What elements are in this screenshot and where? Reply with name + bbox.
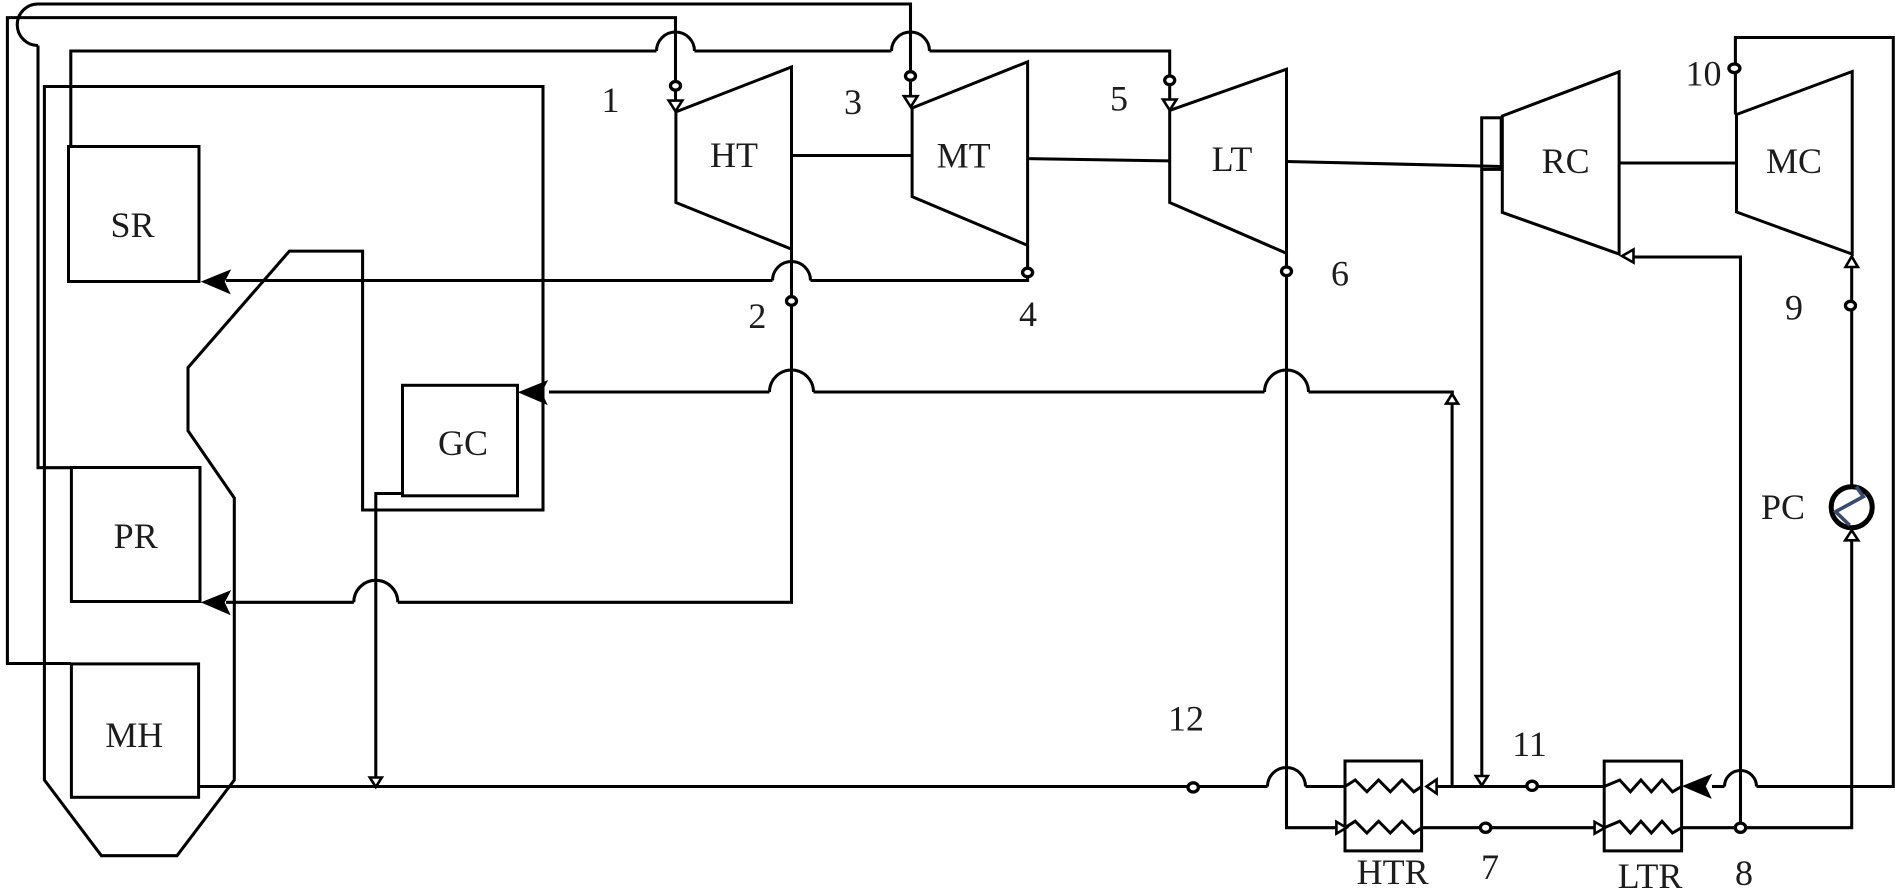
svg-text:1: 1 (602, 80, 620, 120)
svg-text:GC: GC (438, 423, 488, 463)
svg-text:12: 12 (1168, 699, 1204, 739)
svg-text:6: 6 (1331, 253, 1349, 293)
svg-text:8: 8 (1735, 853, 1753, 893)
svg-text:PC: PC (1761, 487, 1805, 527)
svg-text:LT: LT (1212, 139, 1253, 179)
svg-text:MC: MC (1766, 141, 1822, 181)
svg-text:7: 7 (1481, 847, 1499, 887)
svg-text:MH: MH (105, 715, 163, 755)
svg-text:HTR: HTR (1357, 852, 1429, 892)
svg-text:SR: SR (110, 205, 154, 245)
svg-text:11: 11 (1512, 724, 1547, 764)
svg-text:HT: HT (710, 135, 758, 175)
svg-text:4: 4 (1019, 294, 1037, 334)
svg-text:RC: RC (1542, 141, 1590, 181)
svg-text:LTR: LTR (1618, 856, 1683, 896)
svg-text:3: 3 (844, 82, 862, 122)
svg-text:5: 5 (1110, 79, 1128, 119)
svg-text:2: 2 (748, 296, 766, 336)
svg-text:10: 10 (1686, 54, 1722, 94)
svg-text:PR: PR (114, 516, 158, 556)
svg-text:9: 9 (1785, 288, 1803, 328)
svg-text:MT: MT (937, 136, 991, 176)
